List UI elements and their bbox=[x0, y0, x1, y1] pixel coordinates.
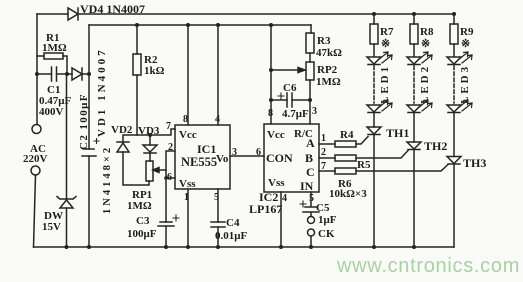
terminal CK top bbox=[308, 217, 315, 224]
pin 1 label bbox=[184, 192, 189, 203]
node junction R7 top bbox=[372, 12, 376, 16]
wire dashed LED3 bbox=[453, 66, 455, 103]
svg-text:LED3: LED3 bbox=[459, 64, 471, 104]
pin 8 label bbox=[183, 114, 188, 125]
svg-text:VD4 1N4007: VD4 1N4007 bbox=[80, 2, 145, 16]
svg-text:Vss: Vss bbox=[268, 177, 285, 189]
svg-text:TH2: TH2 bbox=[424, 139, 447, 153]
diode VD3 bbox=[138, 125, 160, 161]
svg-text:VD2: VD2 bbox=[111, 124, 133, 136]
wire C2 column bbox=[88, 25, 90, 247]
LED LED3 upper bbox=[447, 52, 472, 65]
pin 2 label bbox=[168, 142, 173, 153]
resistor R6 bbox=[319, 165, 448, 201]
svg-text:1MΩ: 1MΩ bbox=[127, 200, 152, 212]
zener DW bbox=[42, 74, 76, 247]
LED LED3 lower bbox=[447, 100, 472, 113]
label LED1 bbox=[379, 64, 391, 104]
LED LED1 upper bbox=[367, 52, 392, 65]
LED LED1 lower bbox=[367, 100, 392, 113]
pin 4 label IC2 bbox=[282, 193, 287, 204]
resistor R3 bbox=[306, 25, 342, 62]
pin 3 label bbox=[232, 147, 237, 158]
capacitor C1 bbox=[39, 67, 71, 118]
wire dropper line bbox=[37, 73, 89, 75]
svg-text:6: 6 bbox=[167, 172, 172, 183]
wire pin5 bbox=[216, 189, 220, 249]
terminal AC bottom bbox=[31, 166, 40, 175]
watermark bbox=[336, 255, 520, 277]
svg-text:R9: R9 bbox=[460, 26, 474, 38]
node junction TH1 rail bbox=[372, 245, 376, 249]
wire dashed LED1 bbox=[373, 66, 375, 103]
wire pin3 IC2 bbox=[308, 80, 312, 124]
thyristor TH2 bbox=[407, 139, 447, 153]
svg-text:CON: CON bbox=[266, 151, 293, 165]
wire Vo to CON bbox=[230, 155, 264, 157]
svg-text:100μF: 100μF bbox=[127, 228, 157, 240]
wire pin8 bbox=[186, 23, 190, 125]
pin 3 label IC2 bbox=[312, 106, 317, 117]
svg-text:TH3: TH3 bbox=[463, 156, 486, 170]
terminal AC top bbox=[32, 125, 41, 134]
node junction R2 top bbox=[135, 23, 139, 27]
svg-text:220V: 220V bbox=[23, 153, 48, 165]
capacitor C6 bbox=[271, 82, 310, 120]
LED LED2 upper bbox=[407, 52, 432, 65]
wire second rail bbox=[89, 24, 311, 26]
resistor R8 bbox=[410, 14, 434, 56]
node junction VD3 top bbox=[148, 133, 152, 137]
capacitor C5 bbox=[300, 192, 337, 226]
svg-text:2: 2 bbox=[168, 142, 173, 153]
node junction TH2 rail bbox=[412, 245, 416, 249]
svg-text:10kΩ×3: 10kΩ×3 bbox=[329, 188, 367, 200]
diode VD1 bbox=[72, 47, 108, 137]
svg-text:R7: R7 bbox=[380, 26, 394, 38]
svg-text:A: A bbox=[306, 136, 315, 150]
thyristor TH1 bbox=[367, 126, 409, 140]
svg-text:C6: C6 bbox=[283, 82, 297, 94]
svg-text:RP2: RP2 bbox=[317, 64, 338, 76]
label IC2 LP167 bbox=[249, 190, 282, 216]
wire pin4 bbox=[216, 23, 220, 125]
potentiometer RP2 bbox=[271, 62, 341, 88]
pin 7 label bbox=[166, 121, 171, 132]
node AC label bbox=[23, 143, 48, 165]
pin 7 label IC2 bbox=[321, 161, 326, 172]
svg-text:B: B bbox=[305, 151, 313, 165]
svg-text:TH1: TH1 bbox=[386, 126, 409, 140]
wire trigger column bbox=[166, 151, 175, 222]
svg-text:IN: IN bbox=[300, 179, 314, 193]
svg-text:6: 6 bbox=[256, 147, 261, 158]
label LED3 bbox=[459, 64, 471, 104]
resistor R2 bbox=[133, 25, 165, 135]
svg-text:R5: R5 bbox=[357, 159, 371, 171]
wire AC bottom lead bbox=[34, 175, 36, 247]
svg-text:7: 7 bbox=[166, 121, 171, 132]
wire pin4 IC2 bbox=[279, 192, 283, 249]
wire TH3 column bbox=[453, 113, 455, 248]
wire bottom rail bbox=[34, 245, 455, 249]
svg-text:1: 1 bbox=[321, 133, 326, 144]
capacitor C4 bbox=[211, 217, 247, 242]
svg-text:47kΩ: 47kΩ bbox=[316, 47, 342, 59]
node junction VD1 out bbox=[87, 72, 91, 76]
wire pin1 bbox=[186, 189, 190, 249]
resistor R5 bbox=[319, 151, 408, 172]
label LED2 bbox=[419, 64, 431, 104]
resistor R9 bbox=[450, 14, 474, 56]
svg-text:LP167: LP167 bbox=[249, 202, 282, 216]
svg-text:※: ※ bbox=[461, 38, 470, 50]
pin 6 label IC2 bbox=[256, 147, 261, 158]
svg-text:C3: C3 bbox=[136, 215, 150, 227]
node junction R9 top bbox=[452, 12, 456, 16]
svg-text:IC1: IC1 bbox=[197, 142, 216, 156]
wire TH2 column bbox=[413, 113, 415, 248]
svg-text:VD1 1N4007: VD1 1N4007 bbox=[96, 47, 108, 137]
resistor R7 bbox=[370, 14, 394, 56]
svg-text:R8: R8 bbox=[420, 26, 434, 38]
svg-text:1N4148×2: 1N4148×2 bbox=[102, 145, 113, 214]
capacitor C2 bbox=[78, 93, 99, 156]
svg-text:R3: R3 bbox=[317, 35, 331, 47]
svg-text:※: ※ bbox=[421, 38, 430, 50]
wire dashed LED2 bbox=[413, 66, 415, 103]
pin 4 label bbox=[215, 114, 220, 125]
node junction C1/DW bbox=[65, 72, 69, 76]
svg-text:※: ※ bbox=[381, 38, 390, 50]
diode VD2 bbox=[111, 124, 149, 185]
wire left rail bbox=[36, 14, 38, 124]
pin 5 label IC2 bbox=[309, 193, 314, 204]
svg-text:C2 100μF: C2 100μF bbox=[78, 93, 90, 150]
svg-text:LED2: LED2 bbox=[419, 64, 431, 104]
svg-text:2: 2 bbox=[321, 147, 326, 158]
pin 1 label IC2 bbox=[321, 133, 326, 144]
pin 6 label bbox=[167, 172, 172, 183]
capacitor C3 bbox=[127, 215, 179, 247]
svg-text:CK: CK bbox=[318, 228, 335, 240]
svg-text:1MΩ: 1MΩ bbox=[316, 76, 341, 88]
svg-text:Vcc: Vcc bbox=[267, 129, 285, 141]
svg-text:VD3: VD3 bbox=[138, 125, 160, 137]
svg-text:1MΩ: 1MΩ bbox=[42, 42, 67, 54]
svg-text:C: C bbox=[306, 165, 315, 179]
label 1N4148x2 bbox=[102, 145, 113, 214]
svg-text:NE555: NE555 bbox=[181, 155, 217, 169]
svg-text:4.7μF: 4.7μF bbox=[282, 108, 309, 120]
svg-text:4: 4 bbox=[282, 193, 287, 204]
pin 8 label IC2 bbox=[268, 108, 273, 119]
svg-text:Vss: Vss bbox=[179, 178, 196, 190]
wire top rail bbox=[37, 13, 454, 15]
svg-text:3: 3 bbox=[312, 106, 317, 117]
terminal CK bottom bbox=[308, 228, 335, 240]
node junction left bbox=[35, 72, 39, 76]
svg-text:Vo: Vo bbox=[216, 153, 229, 165]
wire CK to rail bbox=[309, 236, 313, 249]
potentiometer RP1 bbox=[127, 161, 166, 212]
svg-text:1μF: 1μF bbox=[318, 214, 337, 226]
node junction R8 top bbox=[412, 12, 416, 16]
svg-text:LED1: LED1 bbox=[379, 64, 391, 104]
svg-text:R4: R4 bbox=[340, 129, 354, 141]
svg-text:1kΩ: 1kΩ bbox=[144, 65, 165, 77]
svg-text:0.01μF: 0.01μF bbox=[215, 230, 247, 242]
pin 5 label bbox=[214, 192, 219, 203]
svg-text:400V: 400V bbox=[39, 106, 64, 118]
node junction pin6 bbox=[164, 176, 168, 180]
op-amp U1 NE555 bbox=[175, 125, 230, 190]
diode VD4 bbox=[68, 2, 145, 20]
thyristor TH3 bbox=[447, 156, 486, 170]
wire VD node bbox=[123, 129, 175, 145]
wire pin8 IC2 bbox=[269, 23, 273, 124]
LED LED2 lower bbox=[407, 100, 432, 113]
resistor R4 bbox=[319, 129, 368, 147]
wire TH1 column bbox=[373, 113, 375, 248]
svg-text:www.cntronics.com: www.cntronics.com bbox=[336, 255, 520, 277]
op-amp U2 LP167 bbox=[264, 124, 319, 193]
pin 2 label IC2 bbox=[321, 147, 326, 158]
resistor R1 bbox=[37, 32, 67, 74]
svg-text:15V: 15V bbox=[42, 221, 61, 233]
svg-text:C5: C5 bbox=[316, 202, 330, 214]
svg-text:C4: C4 bbox=[226, 217, 240, 229]
svg-text:Vcc: Vcc bbox=[179, 129, 197, 141]
